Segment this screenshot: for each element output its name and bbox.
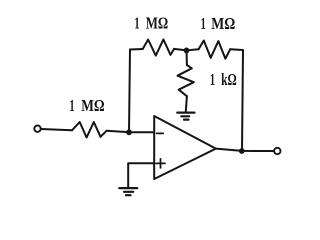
wire: R3 to top-right corner down to output node C [230,49,243,151]
svg-text:1: 1 [134,14,139,33]
label: 1 MΩ (feedback resistor R2) [134,14,168,33]
svg-text:MΩ: MΩ [146,14,169,33]
svg-text:MΩ: MΩ [81,96,104,115]
node B junction dot [184,48,190,54]
resistor R3 1 MΩ (feedback right) [199,41,231,59]
wire: non-inverting input to ground [128,163,154,187]
op-amp U1 [154,116,216,179]
svg-text:kΩ: kΩ [221,70,237,89]
wire: input terminal to R1 [41,129,72,130]
wire: node A up to top-left corner [129,50,130,133]
wire: op-amp output to node C to output terminal [216,149,274,151]
label: 1 MΩ (feedback resistor R3) [201,14,236,33]
resistor R4 1 kΩ (vertical) [178,65,194,96]
input terminal (open circle) [34,126,40,132]
resistor R1 1 MΩ (input) [72,122,107,138]
ground (at non-inverting input) [119,188,137,195]
op-amp non-inverting pin marker + [156,159,165,168]
svg-text:1: 1 [69,96,74,115]
label: 1 kΩ (resistor R4) [210,70,237,89]
node A junction dot [126,129,132,135]
label: 1 MΩ (input resistor R1) [69,96,104,115]
wire: R2 to node B [174,49,186,51]
resistor R2 1 MΩ (feedback left) [143,39,174,55]
wire: R1 to node A to op-amp inverting input [107,131,155,133]
node C junction dot [239,148,245,154]
wire: node B to R3 [187,49,199,50]
svg-text:MΩ: MΩ [211,14,235,33]
ground (under R4) [177,113,194,120]
wire: top-left corner to R2 [130,48,143,51]
op-amp inverting pin marker - [157,132,164,134]
output terminal (open circle) [274,148,280,154]
wire: R4 to ground [186,96,187,111]
svg-text:1: 1 [201,14,206,33]
svg-text:1: 1 [210,70,215,89]
wire: node B down to R4 [186,50,188,65]
